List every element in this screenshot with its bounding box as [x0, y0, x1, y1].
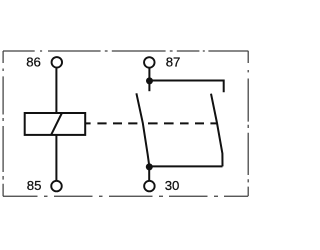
svg-text:87: 87	[166, 55, 181, 70]
svg-text:30: 30	[165, 178, 180, 193]
svg-text:85: 85	[27, 178, 42, 193]
svg-text:86: 86	[26, 55, 41, 70]
